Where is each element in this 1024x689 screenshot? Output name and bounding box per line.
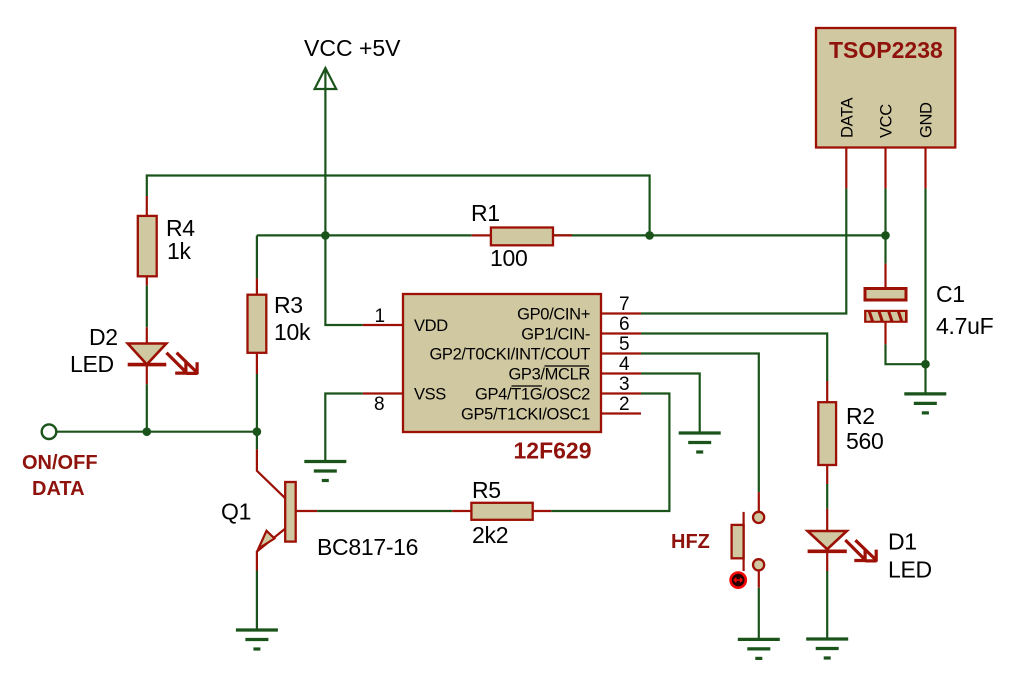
wire R3 bottom	[256, 374, 258, 432]
svg-text:6: 6	[619, 314, 630, 335]
resistor R2	[818, 381, 836, 484]
resistor R3	[248, 278, 267, 374]
transistor Q1	[257, 449, 317, 570]
svg-text:R5: R5	[472, 477, 501, 503]
svg-text:GP1/CIN-: GP1/CIN-	[521, 326, 590, 344]
svg-text:TSOP2238: TSOP2238	[829, 37, 943, 63]
svg-text:D1: D1	[888, 529, 917, 555]
svg-text:GP0/CIN+: GP0/CIN+	[517, 306, 590, 324]
button HFZ	[732, 492, 765, 588]
svg-text:GP3/MCLR: GP3/MCLR	[508, 366, 590, 384]
overline MCLR	[545, 365, 590, 367]
wire D2 to node	[146, 384, 148, 432]
pin 6 stub	[601, 332, 641, 334]
svg-text:DATA: DATA	[838, 97, 856, 138]
svg-text:R2: R2	[846, 403, 875, 429]
pin 7 stub	[601, 312, 641, 314]
pin 2 stub	[601, 412, 641, 414]
svg-text:8: 8	[374, 394, 385, 415]
diode D2 LED	[128, 327, 167, 384]
svg-text:R1: R1	[471, 200, 500, 226]
junction dot top rail drop	[645, 231, 654, 240]
svg-text:R3: R3	[274, 292, 303, 318]
wire pin5 to HFZ	[641, 354, 759, 493]
svg-text:1: 1	[375, 306, 386, 327]
svg-text:10k: 10k	[274, 319, 311, 345]
wire R4 to D2	[146, 285, 148, 327]
ground VSS	[304, 462, 346, 481]
wire R1 rail	[257, 234, 886, 236]
svg-text:4: 4	[619, 354, 630, 375]
pin 4 stub	[601, 372, 641, 374]
wire pin7 to TSOP DATA	[641, 188, 846, 313]
power symbol VCC arrow	[315, 68, 337, 89]
svg-text:LED: LED	[70, 351, 114, 377]
resistor R1	[472, 228, 572, 246]
svg-text:HFZ: HFZ	[671, 531, 710, 553]
IC U1 12F629	[403, 294, 601, 432]
svg-text:GP4/T1G/OSC2: GP4/T1G/OSC2	[475, 386, 590, 404]
wire pin6 to R2	[641, 334, 827, 382]
svg-text:D2: D2	[89, 324, 118, 350]
junction dot VCC rail	[321, 231, 330, 240]
svg-text:DATA: DATA	[32, 478, 85, 500]
svg-text:4.7uF: 4.7uF	[936, 313, 994, 339]
svg-text:VDD: VDD	[414, 317, 448, 335]
svg-text:12F629: 12F629	[514, 438, 592, 464]
svg-text:2k2: 2k2	[472, 522, 508, 548]
junction dot D2 node	[143, 427, 152, 436]
svg-text:GND: GND	[918, 102, 936, 138]
svg-text:LED: LED	[888, 557, 932, 583]
svg-text:5: 5	[619, 334, 630, 355]
svg-text:3: 3	[619, 374, 630, 395]
wire VCC vertical	[325, 69, 362, 325]
svg-text:7: 7	[619, 294, 630, 315]
svg-text:Q1: Q1	[221, 499, 251, 525]
svg-text:ON/OFF: ON/OFF	[22, 452, 98, 474]
wire R5 to pin3	[551, 394, 669, 512]
TSOP pin DATA stub	[845, 148, 847, 189]
svg-text:VSS: VSS	[414, 386, 446, 404]
svg-text:100: 100	[490, 245, 527, 271]
wire VSS to ground	[325, 394, 363, 462]
D2 LED arrows	[167, 353, 198, 375]
overline T1G	[512, 385, 543, 387]
wire pin4 to ground	[641, 374, 700, 434]
junction dot R3 node	[253, 427, 262, 436]
TSOP pin VCC stub	[884, 148, 886, 189]
button HFZ indicator	[731, 573, 746, 588]
junction dot TSOP VCC rail	[881, 231, 890, 240]
wire TSOP VCC down	[884, 188, 886, 263]
svg-text:VCC: VCC	[878, 104, 896, 138]
pin 8 VSS stub	[363, 392, 403, 394]
pin 3 stub	[601, 392, 641, 394]
svg-text:GP5/T1CKI/OSC1: GP5/T1CKI/OSC1	[461, 406, 590, 424]
pin 1 VDD stub	[363, 324, 403, 326]
ground pin4	[679, 433, 721, 452]
wire TSOP GND down	[924, 188, 926, 394]
wire top rail	[147, 176, 650, 236]
ground HFZ	[738, 639, 780, 658]
wire node to Q1 collector	[256, 432, 258, 450]
wire ON/OFF rail	[56, 431, 257, 433]
diode D1 LED	[808, 509, 847, 571]
wire Q1 emitter to ground	[256, 571, 258, 631]
wire Q1 base to R5	[317, 510, 452, 512]
IC U2 TSOP2238	[816, 28, 955, 148]
wire R3 top	[256, 235, 258, 278]
ground Q1	[236, 630, 278, 649]
svg-text:560: 560	[846, 428, 883, 454]
resistor R5	[452, 503, 551, 520]
node terminal ON/OFF	[42, 424, 57, 439]
svg-text:VCC +5V: VCC +5V	[304, 35, 401, 61]
capacitor C1	[864, 264, 908, 345]
wire R2 to D1	[826, 484, 828, 509]
svg-text:BC817-16: BC817-16	[317, 534, 418, 560]
ground D1	[806, 639, 848, 658]
ground TSOP	[904, 394, 946, 413]
pin 5 stub	[601, 352, 641, 354]
wire HFZ to ground	[758, 588, 760, 639]
svg-text:1k: 1k	[167, 238, 191, 264]
svg-text:2: 2	[619, 394, 630, 415]
svg-text:GP2/T0CKI/INT/COUT: GP2/T0CKI/INT/COUT	[429, 346, 590, 364]
TSOP pin GND stub	[924, 148, 926, 189]
junction dot GND rail	[921, 360, 930, 369]
svg-text:C1: C1	[936, 281, 965, 307]
wire C1 to GND rail	[886, 344, 926, 364]
D1 LED arrows	[845, 540, 876, 562]
resistor R4	[138, 196, 157, 285]
wire D1 to ground	[826, 571, 828, 639]
